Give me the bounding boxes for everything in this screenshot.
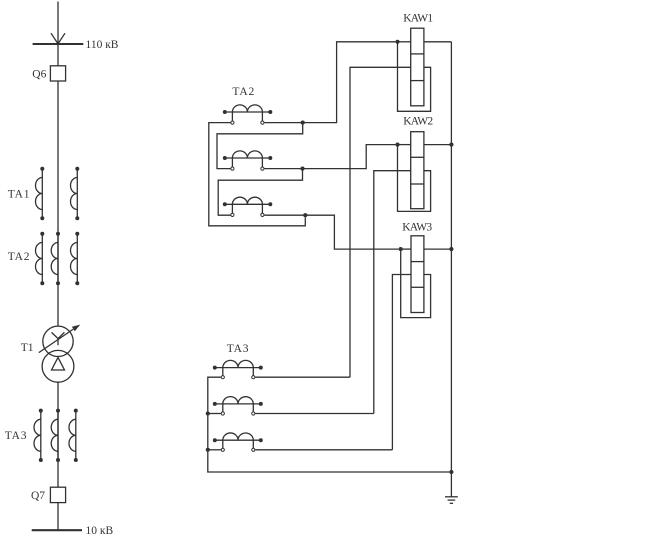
CT TA3 phase-A [34, 409, 43, 462]
wire TA3-B left tap to left bus [208, 413, 221, 415]
node right bus at KAW2 [449, 143, 453, 147]
CT TA2 phase-C [71, 232, 80, 285]
CT TA3 phase-C [69, 409, 78, 462]
svg-text:Q6: Q6 [32, 68, 46, 80]
wire node D1 to relay KAW1 node [303, 42, 396, 123]
wire TA3-B right tap to KAW2 bus [255, 413, 374, 415]
breaker Q7 [50, 487, 65, 502]
CT TA2 phase-A [35, 232, 44, 285]
CT TA1 phase-A [35, 167, 44, 220]
node D1 [301, 121, 305, 125]
svg-text:110 кВ: 110 кВ [86, 39, 119, 51]
wire TA2-B right tap to node D2 [264, 168, 302, 170]
svg-text:Q7: Q7 [31, 490, 45, 502]
svg-text:TA1: TA1 [8, 189, 31, 201]
CT TA2 phase-B [51, 232, 60, 285]
wire TA3-A right tap to KAW1 bus [255, 376, 350, 378]
wire T1 to Q7 [57, 382, 59, 487]
relay KAW3 [411, 236, 424, 313]
busbar 110 kV [33, 43, 84, 45]
wire TA3-C left tap to left bus [208, 449, 221, 451]
node ground junction [449, 470, 453, 474]
wire TA3-C right tap to KAW3 bus [255, 449, 392, 451]
node K2 [395, 143, 399, 147]
svg-text:TA3: TA3 [5, 430, 28, 442]
CT TA1 phase-C [71, 167, 80, 220]
wire KAW3 restraint coil to TA3-C [392, 275, 411, 450]
wire busbar to Q6 [57, 44, 59, 66]
relay KAW2 [411, 132, 424, 209]
T1 tap-changer arrow [39, 325, 80, 353]
relay KAW1 [411, 28, 424, 106]
transformer T1 HV winding (wye) [43, 326, 73, 356]
wire KAW2 restraint coil to TA3-B [374, 171, 411, 414]
svg-text:KAW2: KAW2 [403, 116, 433, 128]
node D3 [303, 213, 307, 217]
wire node D3 to relay KAW3 node [305, 215, 398, 249]
wire KAW1 restraint coil to TA3-A [350, 67, 411, 377]
svg-text:KAW3: KAW3 [402, 221, 432, 233]
wire node D2 jog to TA2-C left tap [218, 169, 302, 216]
TA2 secondary winding phase-A [223, 105, 272, 124]
wire KAW3 working coil to right bus [424, 248, 452, 250]
wire node K2 loop to KAW2 restraint coil [398, 145, 431, 212]
TA3 secondary winding phase-A [213, 360, 263, 378]
wire node D2 to relay KAW2 node [303, 145, 396, 169]
CT TA3 phase-B [51, 409, 60, 462]
wire right return bus [450, 42, 452, 472]
svg-text:10 кВ: 10 кВ [86, 525, 114, 537]
node D2 [300, 167, 304, 171]
wire Q6 to T1 [57, 81, 59, 326]
wire node K3 to KAW3 working coil [401, 248, 411, 250]
svg-text:TA2: TA2 [8, 251, 31, 263]
node K3 [399, 247, 403, 251]
TA2 secondary winding phase-B [223, 151, 272, 170]
node right bus at KAW3 [449, 247, 453, 251]
wire TA2-A left tap to left loop bus [209, 123, 305, 226]
svg-text:TA2: TA2 [232, 86, 255, 98]
busbar 10 kV [32, 529, 82, 531]
node TA3 left bus B [206, 411, 210, 415]
wire node K3 loop to KAW3 restraint coil [401, 249, 431, 318]
wire KAW1 working coil to right bus [424, 41, 452, 43]
node TA3 left bus C [206, 448, 210, 452]
TA2 secondary winding phase-C [223, 197, 272, 216]
wire Q7 to 10 kV busbar [57, 503, 59, 531]
TA3 secondary winding phase-B [213, 397, 263, 415]
wire TA2-A right tap to node D1 [264, 122, 302, 124]
wire node D1 jog to TA2-B left tap [217, 123, 303, 169]
breaker Q6 [50, 66, 65, 81]
transformer T1 LV winding (delta) [42, 350, 74, 382]
svg-text:TA3: TA3 [227, 343, 250, 355]
svg-text:T1: T1 [21, 342, 34, 354]
wire node K2 to KAW2 working coil [398, 144, 411, 146]
svg-text:KAW1: KAW1 [403, 13, 433, 25]
wire node K1 loop to KAW1 restraint coil [398, 42, 431, 112]
wire to ground [450, 472, 452, 497]
TA3 secondary winding phase-C [213, 433, 263, 451]
wire KAW2 working coil to right bus [424, 144, 452, 146]
wire node K1 to KAW1 working coil [398, 41, 411, 43]
ground [445, 497, 458, 504]
arrowhead on incoming feeder [51, 33, 65, 44]
wire incoming 110 kV feeder [57, 2, 59, 45]
wire TA3 left bus to ground bus [208, 377, 450, 472]
node K1 [395, 40, 399, 44]
wire TA2-C right tap to node D3 [264, 214, 305, 216]
